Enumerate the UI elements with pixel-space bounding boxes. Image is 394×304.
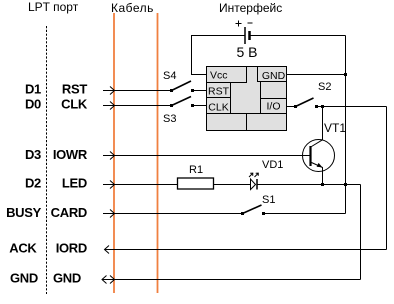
cable line left	[113, 13, 115, 293]
pad reserved	[261, 82, 287, 99]
pad RST	[207, 83, 231, 98]
svg-text:Интерфейс: Интерфейс	[219, 1, 282, 15]
svg-text:GND: GND	[10, 271, 38, 286]
svg-text:S1: S1	[262, 194, 275, 206]
pad GND	[258, 67, 287, 82]
pad I/O	[261, 99, 287, 114]
pad Vcc	[207, 67, 247, 83]
pad CLK	[207, 98, 231, 114]
wire R1 to VD1	[214, 184, 251, 186]
wire I/O stub	[287, 106, 296, 108]
svg-text:LPT порт: LPT порт	[28, 0, 79, 14]
wire GND pad to battery minus	[287, 74, 346, 76]
junction collector node	[321, 105, 324, 108]
wire VT1 collector to S2 node	[312, 107, 323, 147]
switch S1	[241, 212, 244, 215]
wire LED line down to GND row	[360, 185, 362, 280]
svg-text:CARD: CARD	[51, 205, 87, 220]
svg-text:GND: GND	[53, 271, 81, 286]
wire VD1 to right	[257, 184, 361, 186]
pad bottom left	[207, 114, 247, 131]
svg-text:VT1: VT1	[324, 121, 346, 135]
switch S2	[294, 105, 297, 108]
junction GND column / LED line	[344, 183, 347, 186]
wire D0/CLK with arrow	[103, 105, 172, 107]
svg-text:5 В: 5 В	[237, 44, 258, 60]
svg-text:CLK: CLK	[61, 97, 88, 112]
svg-text:S4: S4	[163, 70, 176, 82]
transistor VT1 base bar	[309, 146, 311, 166]
junction emitter node	[321, 183, 324, 186]
wire BUSY/CARD with arrow	[103, 213, 243, 215]
svg-text:ACK: ACK	[9, 241, 37, 256]
svg-text:S2: S2	[318, 81, 331, 93]
switch S4	[170, 89, 173, 92]
battery wire right (minus to GND pad)	[251, 35, 346, 37]
pad bottom right	[247, 114, 287, 131]
transistor VT1 body	[303, 140, 335, 172]
svg-text:D1: D1	[25, 82, 41, 97]
smart card interface body	[207, 67, 287, 131]
wire GND with double arrow	[102, 279, 361, 281]
wire S1 to GND column	[264, 213, 346, 215]
svg-text:D0: D0	[25, 97, 41, 112]
VD1 light arrows	[249, 174, 253, 178]
svg-text:RST: RST	[208, 86, 230, 98]
wire S2 to right edge	[317, 106, 387, 108]
svg-text:S3: S3	[163, 113, 176, 125]
wire D3/IOWR with arrow (to VT1 base)	[103, 155, 311, 157]
cable line right	[157, 13, 159, 293]
svg-text:IORD: IORD	[56, 241, 87, 256]
LPT port boundary dashed line	[46, 26, 48, 294]
svg-text:D2: D2	[25, 176, 41, 191]
wire VT1 emitter to LED line	[312, 163, 323, 185]
svg-text:GND: GND	[262, 70, 286, 82]
LED diode VD1	[251, 179, 256, 190]
battery wire left (Vcc to plus)	[192, 36, 245, 75]
battery minus sign	[248, 22, 253, 24]
wire D1/RST with arrow	[103, 90, 172, 92]
svg-text:I/O: I/O	[266, 101, 280, 113]
battery G1	[244, 27, 246, 44]
svg-text:BUSY: BUSY	[6, 205, 42, 220]
wire D2/LED with arrow	[103, 184, 178, 186]
svg-text:Кабель: Кабель	[111, 1, 154, 15]
svg-text:Vcc: Vcc	[210, 70, 228, 82]
svg-text:VD1: VD1	[262, 159, 283, 171]
svg-text:R1: R1	[189, 164, 203, 176]
wire ACK/IORD with left arrow	[105, 249, 387, 251]
svg-text:LED: LED	[62, 176, 87, 191]
svg-text:CLK: CLK	[208, 102, 228, 114]
svg-text:RST: RST	[62, 82, 87, 97]
switch S3	[170, 104, 173, 107]
wire GND column vertical	[345, 36, 347, 214]
battery plus sign	[236, 23, 242, 25]
junction battery minus / GND column	[344, 73, 347, 76]
resistor R1	[178, 178, 214, 189]
wire right edge vertical (IORD loop)	[386, 107, 388, 250]
svg-text:IOWR: IOWR	[53, 147, 88, 162]
svg-text:D3: D3	[25, 147, 41, 162]
